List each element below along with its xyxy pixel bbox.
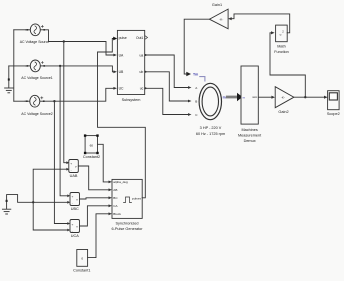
svg-text:wm: wm — [252, 95, 257, 99]
svg-text:-: - — [71, 168, 72, 172]
svg-text:0: 0 — [81, 257, 83, 261]
svg-text:Demux: Demux — [244, 139, 256, 143]
voltage measurement UCA — [70, 220, 80, 233]
wire ground2 to measurement minus bus — [7, 195, 68, 203]
ground G2 — [2, 200, 10, 214]
svg-text:BC: BC — [113, 196, 118, 200]
wire uc to machine C — [145, 88, 189, 114]
svg-text:UBC: UBC — [71, 207, 79, 211]
wire ua to machine A — [145, 55, 189, 88]
svg-text:AC Voltage Source1: AC Voltage Source1 — [21, 76, 53, 80]
svg-text:m: m — [243, 95, 246, 99]
svg-text:Synchronized: Synchronized — [115, 222, 138, 226]
svg-text:AC Voltage Source: AC Voltage Source — [20, 40, 50, 44]
svg-text:AC Voltage Source2: AC Voltage Source2 — [21, 112, 53, 116]
arrow into UB — [113, 70, 117, 73]
wire UBC out to generator BC — [80, 198, 109, 199]
blue hook Tm — [200, 77, 205, 81]
svg-text:Function: Function — [274, 50, 289, 54]
scope Scope2 — [328, 91, 340, 110]
wire left bus connecting source minus terminals — [13, 30, 15, 101]
svg-text:3 HP - 220 V: 3 HP - 220 V — [200, 126, 222, 130]
gain Gain1 — [209, 9, 228, 29]
wire V1 drop to UAB plus — [64, 42, 67, 163]
math function U4 — [276, 25, 288, 42]
svg-text:UAB: UAB — [70, 174, 78, 178]
arrow into UBC plus — [67, 194, 70, 197]
svg-text:B: B — [195, 100, 197, 104]
wire Gain2 out to Scope2 — [294, 96, 324, 98]
wire V2 output to UB — [45, 66, 114, 72]
arrow into B — [188, 100, 192, 103]
arrow into C — [188, 113, 192, 116]
svg-text:-K-: -K- — [219, 18, 223, 22]
svg-text:Tm: Tm — [193, 73, 198, 77]
svg-text:pulses: pulses — [132, 196, 141, 200]
wire Math Function out to Gain1 — [232, 14, 290, 33]
svg-text:m: m — [223, 95, 226, 99]
arrow into Scope2 — [324, 96, 328, 99]
svg-text:Machines: Machines — [241, 128, 257, 132]
svg-text:Gain1: Gain1 — [212, 3, 222, 7]
wire feedback junction up to Math Function input — [270, 33, 305, 97]
wire V2 drop to UBC plus — [60, 66, 67, 196]
ground G1 — [5, 66, 13, 93]
asynchronous machine M1 — [195, 83, 221, 119]
wire ground branch down to UCA minus — [33, 202, 67, 230]
svg-text:+: + — [72, 222, 74, 226]
svg-text:60: 60 — [90, 143, 94, 147]
svg-text:alpha_deg: alpha_deg — [113, 180, 128, 184]
arrow into Gain2 — [271, 96, 275, 99]
arrow into Math Function — [271, 31, 275, 34]
svg-text:Measurement: Measurement — [238, 133, 262, 137]
svg-text:Block: Block — [113, 212, 121, 216]
node J2 on V2 wire — [59, 65, 61, 67]
svg-text:60 Hz - 1725 rpm: 60 Hz - 1725 rpm — [196, 132, 225, 136]
arrow into Gain1 — [228, 17, 232, 20]
wire pulses to Subsystem pulse input — [98, 39, 146, 198]
arrow into BC — [109, 196, 112, 199]
arrow into UCA plus — [67, 222, 70, 225]
gain Gain2 — [275, 87, 294, 108]
wire Constant1 to Block input — [88, 214, 109, 258]
node J5 after Gain2 — [304, 96, 306, 98]
node J1 on V1 wire — [63, 40, 65, 42]
subsystem U1 — [117, 30, 147, 94]
svg-text:UCA: UCA — [71, 234, 79, 238]
svg-text:Scope2: Scope2 — [327, 112, 340, 116]
arrow into Tm — [186, 72, 191, 77]
arrow into UBC minus — [67, 201, 70, 204]
svg-text:UB: UB — [119, 70, 124, 74]
wire V3 output to UC — [44, 88, 113, 101]
svg-text:Constant1: Constant1 — [73, 269, 90, 273]
thick mux wire machine m to demux — [227, 96, 237, 99]
svg-text:ua: ua — [140, 53, 144, 57]
machines measurement demux U3 — [241, 66, 258, 124]
wire Gain1 out to Tm — [184, 19, 209, 74]
wire ub to machine B — [145, 72, 189, 101]
arrow into UCA minus — [67, 229, 70, 232]
arrow into A — [188, 86, 192, 89]
svg-text:pulse: pulse — [119, 36, 127, 40]
svg-text:-: - — [72, 229, 73, 233]
wire wm to Gain2 — [258, 96, 271, 98]
svg-text:UC: UC — [119, 87, 124, 91]
wire ground branch up to UAB minus — [33, 169, 67, 202]
svg-text:Math: Math — [277, 45, 285, 49]
svg-text:Out1: Out1 — [136, 36, 143, 40]
node J4 ground bus — [32, 201, 34, 203]
node J3 on V3 wire — [53, 100, 55, 102]
constant Constant1 value 0 — [77, 250, 88, 267]
arrow into pulse port — [113, 37, 117, 41]
arrow into Block — [109, 212, 112, 215]
wire V3 drop to UCA plus — [54, 101, 67, 223]
arrow into alpha_deg — [109, 181, 112, 184]
synchronized 6-pulse generator U2 — [112, 179, 142, 218]
AC Voltage Source V1 — [14, 24, 45, 36]
wire V1 output to UA — [45, 30, 114, 55]
svg-text:ub: ub — [140, 70, 144, 74]
svg-text:UA: UA — [119, 53, 124, 57]
wire Constant2 to alpha_deg — [98, 144, 109, 182]
svg-text:-K-: -K- — [281, 96, 285, 100]
arrow into UC — [113, 87, 117, 90]
wire ground1 tee from V2 row — [9, 65, 27, 67]
svg-text:+: + — [72, 194, 74, 198]
svg-text:uc: uc — [140, 87, 144, 91]
svg-text:6-Pulse Generator: 6-Pulse Generator — [111, 227, 143, 231]
arrow into UAB plus — [66, 161, 69, 164]
svg-text:Gain2: Gain2 — [278, 110, 288, 114]
wire UAB out to generator AB — [78, 166, 108, 190]
arrow into AB — [109, 188, 112, 191]
arrow into UAB minus — [66, 168, 69, 171]
voltage measurement UBC — [70, 193, 80, 206]
svg-text:-: - — [72, 201, 73, 205]
wire UCA out to generator CA — [80, 206, 109, 226]
AC Voltage Source V2 — [26, 60, 45, 72]
svg-text:Constant2: Constant2 — [83, 155, 100, 159]
svg-text:+: + — [70, 161, 72, 165]
arrow into UA — [113, 54, 117, 57]
voltage measurement UAB — [69, 160, 79, 173]
svg-text:AB: AB — [113, 188, 117, 192]
arrow into CA — [109, 204, 112, 207]
svg-text:Subsystem: Subsystem — [122, 98, 141, 102]
svg-text:u: u — [280, 33, 282, 37]
constant Constant2 value 60 (selected) — [84, 134, 99, 154]
AC Voltage Source V3 — [14, 95, 45, 107]
